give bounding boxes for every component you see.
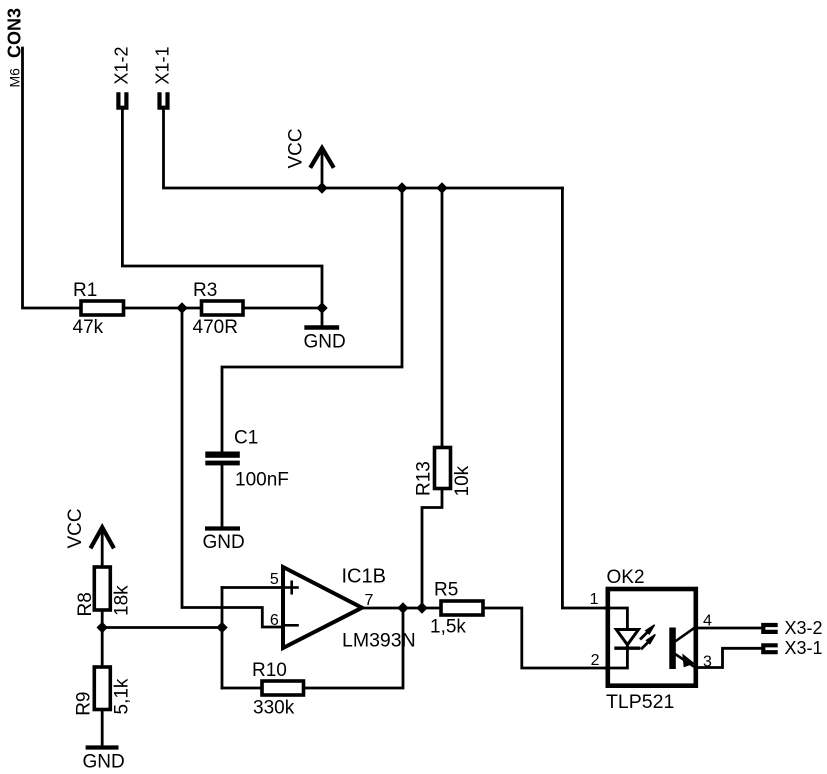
resistor R3 [202, 301, 244, 315]
wire pin5 [222, 586, 283, 589]
wire C1 to ground [221, 465, 224, 527]
junction at (222,627.5) [216, 622, 227, 633]
light arrows of OK2 [641, 625, 655, 649]
svg-text:X3-1: X3-1 [785, 638, 823, 658]
wire R9 to ground [101, 710, 104, 747]
svg-text:R3: R3 [193, 280, 217, 301]
svg-text:GND: GND [203, 532, 245, 553]
junction at (402,188) [396, 182, 407, 193]
optocoupler OK2 box [608, 589, 696, 686]
power VCC (top) [311, 148, 332, 188]
junction divider node [97, 622, 108, 633]
op-amp IC1B [283, 567, 362, 648]
svg-text:R8: R8 [75, 592, 96, 616]
svg-text:X3-2: X3-2 [785, 618, 823, 638]
junction at (422,608) [416, 602, 427, 613]
resistor R5 [441, 601, 483, 615]
resistor R10 [262, 681, 304, 695]
svg-text:R5: R5 [434, 580, 458, 601]
svg-text:10k: 10k [452, 465, 473, 496]
junction at (442,188) [436, 182, 447, 193]
wire output node [362, 607, 441, 610]
svg-text:47k: 47k [73, 317, 104, 338]
connector X1-2 [118, 94, 126, 107]
wire R13 to output node [422, 489, 442, 609]
power VCC (left divider) [92, 527, 113, 567]
resistor R9 [94, 667, 110, 710]
junction R1/R3 node [176, 302, 187, 313]
svg-text:7: 7 [365, 592, 374, 609]
wire R8 to R9 [101, 610, 104, 667]
svg-text:1,5k: 1,5k [430, 617, 466, 638]
svg-text:GND: GND [83, 752, 125, 773]
wire R10 feedback [222, 687, 262, 690]
connector X3-2 [763, 625, 775, 632]
resistor R13 [435, 448, 451, 489]
svg-text:R1: R1 [73, 280, 97, 301]
svg-text:R13: R13 [414, 461, 435, 496]
svg-text:6: 6 [270, 612, 279, 629]
wire VCC rail to OK2 pin1 [562, 188, 605, 608]
wire CON3 lead [23, 48, 82, 308]
svg-text:OK2: OK2 [607, 567, 645, 588]
ground GND (R9) [88, 745, 117, 749]
svg-text:LM393N: LM393N [342, 629, 416, 651]
resistor R8 [94, 567, 110, 610]
ground GND (C1) [207, 526, 238, 530]
wire divider to op-amp [102, 626, 222, 629]
wire pin1 inside [606, 608, 628, 648]
svg-text:R9: R9 [74, 692, 95, 716]
op-amp minus sign [286, 624, 298, 627]
svg-text:18k: 18k [112, 585, 133, 616]
wire R1 to R3 [124, 307, 202, 310]
wire pin4 to X3-2 [696, 627, 762, 630]
wire R10 to output [304, 608, 404, 688]
svg-text:VCC: VCC [65, 508, 86, 548]
wire inverting input path from R1/R3 [182, 308, 283, 627]
svg-text:X1-1: X1-1 [153, 46, 173, 84]
ground GND (near R3) [307, 308, 337, 328]
svg-text:VCC: VCC [286, 128, 307, 168]
svg-text:2: 2 [591, 652, 600, 669]
svg-text:GND: GND [304, 332, 346, 353]
svg-text:470R: 470R [193, 317, 238, 338]
op-amp plus sign [286, 582, 298, 593]
svg-text:5,1k: 5,1k [112, 678, 133, 714]
junction at (322,308) [316, 302, 327, 313]
resistor R1 [81, 301, 124, 315]
svg-text:330k: 330k [253, 698, 295, 719]
svg-text:R10: R10 [252, 660, 287, 681]
wire VCC rail to R13 [441, 188, 444, 448]
wire R3 to GND junction [243, 307, 322, 310]
svg-text:X1-2: X1-2 [112, 46, 132, 84]
wire pin3 to X3-1 [696, 648, 762, 667]
wire X1-2 to GND node [122, 110, 322, 308]
svg-text:C1: C1 [234, 428, 258, 449]
junction at VCC rail x=322 [316, 182, 327, 193]
svg-text:100nF: 100nF [235, 469, 289, 490]
LED of OK2 [616, 630, 639, 649]
wire noninverting input riser [221, 588, 224, 689]
junction at (403,608) [397, 602, 408, 613]
connector X3-1 [763, 645, 775, 652]
connector X1-1 [160, 94, 168, 107]
wire X1-1 to VCC rail [164, 110, 563, 188]
svg-text:TLP521: TLP521 [606, 691, 674, 713]
wire R5 to OK2 pin2 [483, 608, 606, 668]
svg-text:M6: M6 [7, 68, 23, 88]
wire VCC rail to C1 [222, 188, 402, 452]
capacitor C1 [205, 452, 240, 466]
svg-text:5: 5 [270, 571, 279, 588]
wire pin2 inside [606, 648, 628, 668]
svg-text:IC1B: IC1B [342, 566, 386, 588]
phototransistor of OK2 [669, 627, 696, 669]
svg-text:1: 1 [590, 591, 599, 608]
node CON3 label [5, 8, 25, 88]
